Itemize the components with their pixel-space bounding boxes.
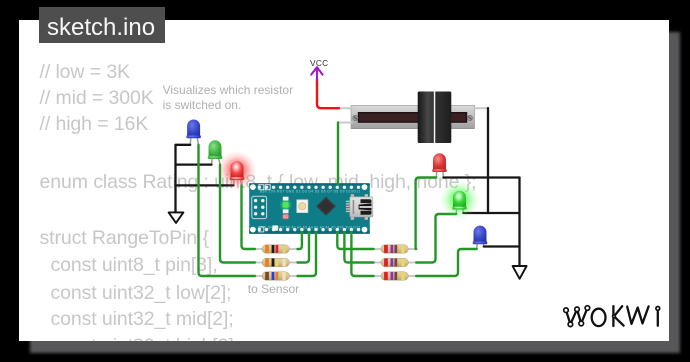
svg-text:B5X 1X0 RST GND D2 D3 D4 D5 D6: B5X 1X0 RST GND D2 D3 D4 D5 D6 D7 D8 D9 …: [260, 190, 360, 194]
svg-text:VCC: VCC: [310, 58, 328, 68]
svg-text:VIN GND RST 5V A7 A6 A5 A4 A3: VIN GND RST 5V A7 A6 A5 A4 A3 A2 A1 A0 R…: [260, 225, 360, 229]
